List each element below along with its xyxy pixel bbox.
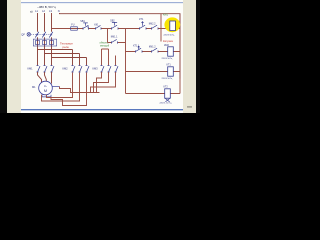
thermal relay heater box KK xyxy=(33,39,56,46)
wire mid drop from top rail xyxy=(160,14,162,42)
rung 2 wires xyxy=(126,51,181,53)
contactor KM3 pole 3 xyxy=(115,66,119,73)
auxiliary contact KM1.1 xyxy=(112,39,118,43)
wire neutral N to top rail and right return rail xyxy=(60,13,181,79)
thermal relay annotation (red) xyxy=(60,42,73,49)
breaker QF pole 2 xyxy=(42,32,46,38)
contactor KM2 pole 1 xyxy=(72,66,76,73)
control rail wire xyxy=(52,28,180,30)
motor terminal link (blue) xyxy=(42,94,51,97)
svg-text:КМ1: КМ1 xyxy=(163,13,169,17)
svg-text:КТ1: КТ1 xyxy=(167,64,172,67)
rung 3 wire xyxy=(126,71,181,73)
svg-text:КТ1: КТ1 xyxy=(139,18,144,21)
stop button SB1 xyxy=(83,23,89,30)
contact KM2.2 xyxy=(152,25,159,29)
svg-text:реле: реле xyxy=(63,45,70,49)
svg-text:Катушка: Катушка xyxy=(163,40,173,43)
svg-text:~380 В, 50 Гц: ~380 В, 50 Гц xyxy=(37,5,56,9)
motor M1 xyxy=(39,81,53,95)
contactor KM2 pole 3 xyxy=(86,66,90,73)
wire winding end D (motor link to KM2 pole3) xyxy=(51,73,87,106)
svg-text:М: М xyxy=(44,89,47,93)
breaker QF drive symbol xyxy=(27,33,31,37)
contactor KM3 pole 2 xyxy=(108,66,112,73)
wire winding end B (motor to KM2 pole1) xyxy=(47,73,73,98)
heater element 3 xyxy=(49,41,53,45)
coil KT2 lower cross xyxy=(165,99,169,102)
left black bar xyxy=(0,0,7,113)
contact KM1.2 xyxy=(152,48,159,52)
start button SB2 xyxy=(112,22,119,29)
wire KM3 pole2 hook xyxy=(94,72,109,93)
svg-text:220 В 50Гц: 220 В 50Гц xyxy=(162,58,173,60)
breaker QF mechanical link (dashed) xyxy=(31,33,50,35)
svg-text:QF: QF xyxy=(21,33,25,37)
svg-text:КМ1.1: КМ1.1 xyxy=(111,35,118,38)
contactor KM1 pole 1 xyxy=(37,66,41,73)
right cream margin xyxy=(183,0,196,113)
coil KM1 xyxy=(170,21,176,31)
svg-text:SB1: SB1 xyxy=(80,20,85,23)
fuse FU xyxy=(71,27,78,30)
svg-text:КК1: КК1 xyxy=(94,23,99,26)
time contact KT1.1 xyxy=(136,46,143,53)
svg-text:220 В 50Гц: 220 В 50Гц xyxy=(164,35,175,37)
svg-text:КТ2: КТ2 xyxy=(164,86,169,89)
page background xyxy=(0,0,200,113)
wire tap phase3 to KM2 pole3 xyxy=(52,58,87,66)
coil KT2 xyxy=(165,89,171,98)
left cream margin xyxy=(7,0,21,113)
heater element 2 xyxy=(42,41,46,45)
rung 4 wire xyxy=(126,79,181,94)
wire winding end C (motor to KM2 pole2) xyxy=(42,73,80,102)
time relay contact KT1 xyxy=(140,22,147,30)
svg-text:3~: 3~ xyxy=(44,84,47,88)
svg-text:КМ3: КМ3 xyxy=(93,67,99,71)
wire phase L3 vertical xyxy=(51,13,53,66)
coil KT1 xyxy=(168,67,174,76)
breaker QF pole 3 xyxy=(49,32,53,38)
motor right stub (blue) xyxy=(52,86,59,88)
wire winding end A (motor stub bus) xyxy=(60,87,100,93)
heater element 1 xyxy=(35,41,39,45)
svg-text:М1: М1 xyxy=(32,85,36,89)
svg-text:SB2: SB2 xyxy=(110,19,115,22)
svg-text:220 В, 50 Гц: 220 В, 50 Гц xyxy=(160,103,173,105)
contactor KM1 pole 2 xyxy=(44,66,48,73)
highlight on coil KM1 (yellow) xyxy=(164,17,180,32)
svg-text:N: N xyxy=(58,9,60,13)
page number marks xyxy=(187,106,192,107)
star annotation (green) xyxy=(100,42,110,48)
svg-text:звездой: звездой xyxy=(100,45,110,48)
wire KM3 pole3 hook xyxy=(91,72,116,93)
coil KM2 xyxy=(168,47,174,56)
svg-text:КМ1.2: КМ1.2 xyxy=(149,46,156,49)
wire phase L1 vertical xyxy=(37,13,39,66)
right black bar xyxy=(196,0,200,113)
wire KM3 pole1 hook xyxy=(97,72,102,93)
breaker QF pole 1 xyxy=(35,32,39,38)
phase labels L1 L2 L3 N xyxy=(35,9,60,13)
bottom blue rule xyxy=(21,109,183,111)
wire tap phase1 to KM2 pole1 xyxy=(38,50,73,66)
contactor KM1 pole 3 xyxy=(51,66,55,73)
contactor KM2 pole 2 xyxy=(79,66,83,73)
holding branch wires xyxy=(108,29,126,94)
svg-text:220 В 50Гц: 220 В 50Гц xyxy=(162,78,173,80)
svg-text:КТ1.1: КТ1.1 xyxy=(133,45,140,48)
wire phase L2 vertical xyxy=(44,13,46,66)
top blue rule xyxy=(21,2,183,4)
contactor KM3 pole 1 xyxy=(101,66,105,73)
svg-text:а): а) xyxy=(30,10,33,14)
star point bar and risers KM3 xyxy=(102,49,116,66)
svg-text:FU: FU xyxy=(71,23,74,26)
svg-text:КМ1: КМ1 xyxy=(28,67,34,71)
wire tap phase2 to KM2 pole2 xyxy=(45,54,80,66)
thermal contact KK1 xyxy=(96,25,102,29)
wires KM1 poles to motor xyxy=(38,72,52,84)
svg-text:КМ2: КМ2 xyxy=(63,67,69,71)
svg-text:КМ2.2: КМ2.2 xyxy=(149,23,156,26)
